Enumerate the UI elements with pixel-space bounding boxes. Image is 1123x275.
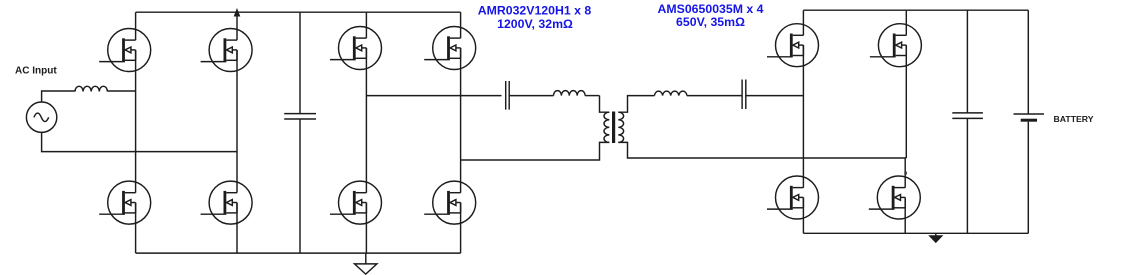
svg-text:1200V, 32mΩ: 1200V, 32mΩ xyxy=(497,17,573,31)
svg-text:650V, 35mΩ: 650V, 35mΩ xyxy=(676,15,745,29)
svg-text:BATTERY: BATTERY xyxy=(1054,114,1094,124)
svg-text:AC Input: AC Input xyxy=(15,66,57,77)
svg-text:AMS0650035M x 4: AMS0650035M x 4 xyxy=(658,2,764,16)
svg-text:AMR032V120H1 x 8: AMR032V120H1 x 8 xyxy=(478,4,592,18)
